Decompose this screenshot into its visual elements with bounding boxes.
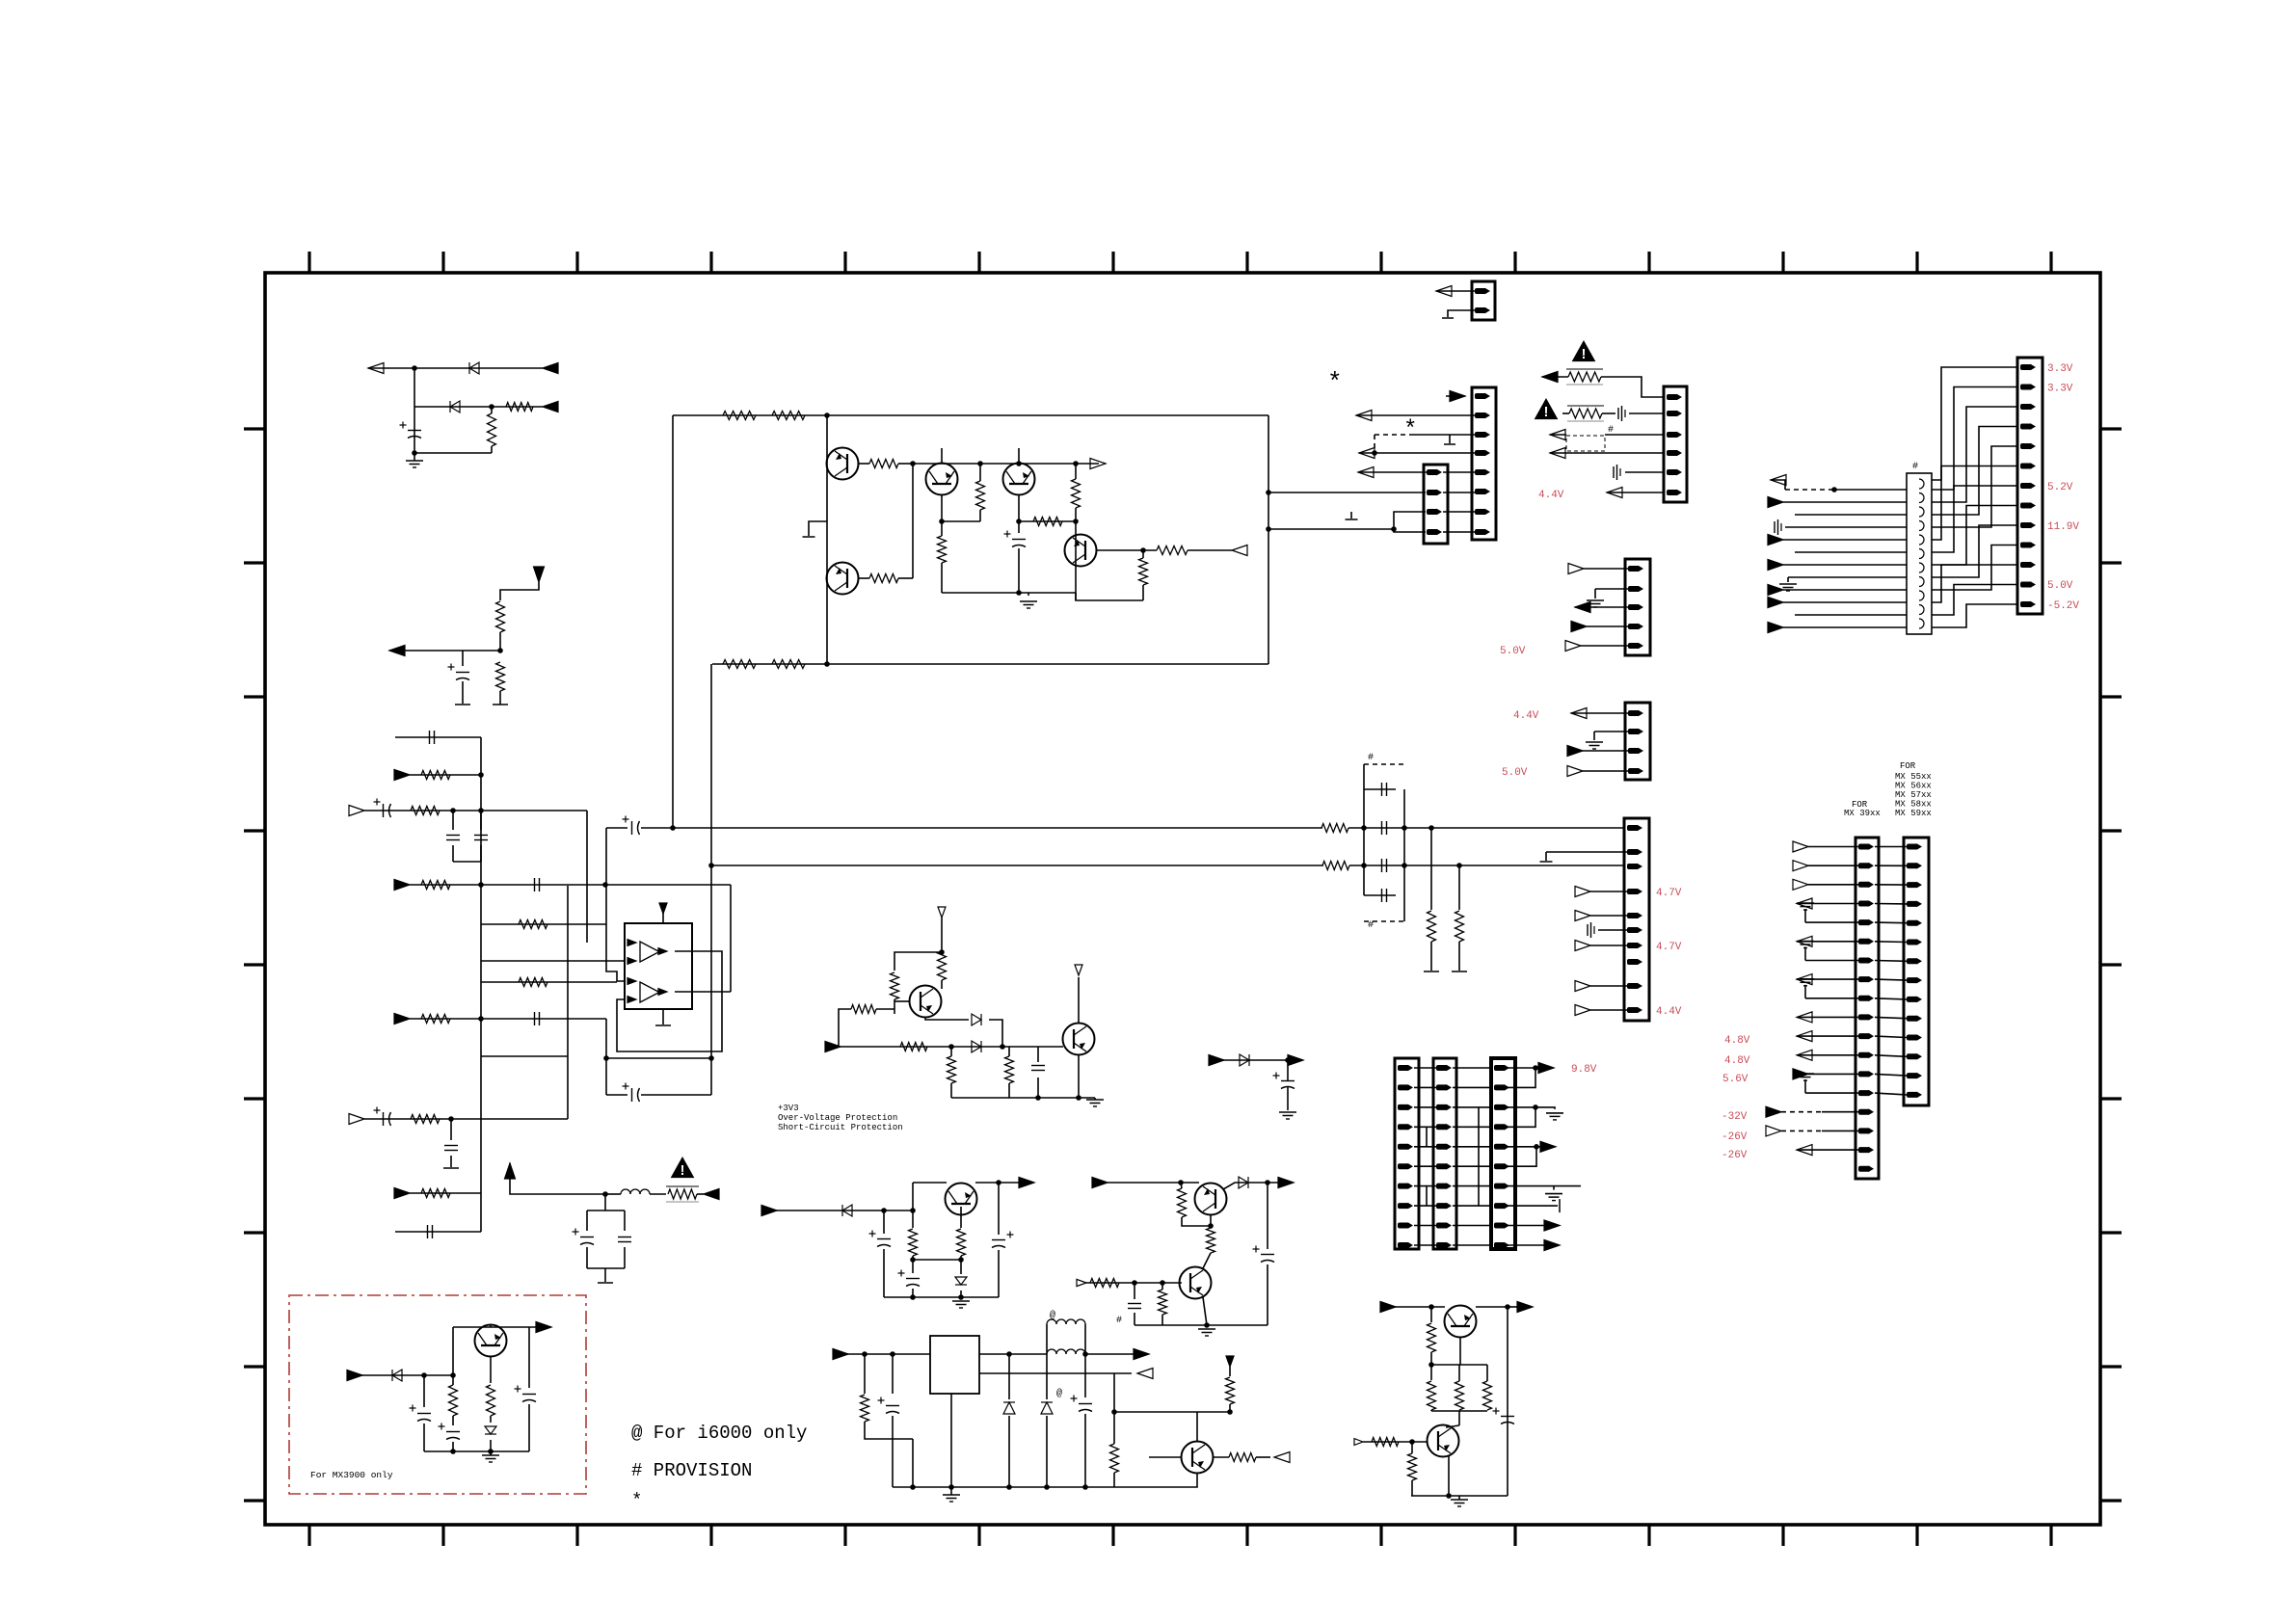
wire FL1 row3	[1783, 501, 1907, 503]
arrow FL1 row11 (filled right)	[1768, 598, 1783, 608]
wire FL1-J5 row8	[1932, 506, 2017, 566]
junction J2 pin4	[1372, 450, 1377, 456]
wire P1	[941, 918, 943, 950]
label For MX3900 only	[310, 1470, 393, 1480]
arrow REG in (filled right)	[833, 1349, 848, 1360]
wire R42 tail	[1229, 1404, 1231, 1412]
junction C4b	[602, 882, 608, 888]
arrow FL1 row3 (filled right)	[1768, 497, 1783, 508]
resistor R35	[909, 1229, 918, 1256]
resistor R51	[1408, 1453, 1417, 1480]
junction BR5	[1446, 1493, 1452, 1499]
resistor R24	[1139, 558, 1148, 585]
wire gnd stub Q1/Q2	[809, 521, 827, 536]
junction A2	[489, 404, 494, 410]
label @ L2	[1050, 1310, 1055, 1321]
junction bus1 x1485	[1428, 825, 1434, 831]
wire Q5 trunk	[1075, 521, 1077, 600]
border frame	[265, 273, 2100, 1525]
wire FL1-J5 row7	[1932, 486, 2017, 552]
junction T1	[602, 1191, 608, 1197]
warning triangle W3	[671, 1157, 695, 1179]
resistor R18	[869, 574, 898, 583]
connector J7 (10-pin)	[1624, 818, 1649, 1021]
wire T1	[510, 1163, 605, 1194]
wire Q12 top rail	[453, 1326, 540, 1328]
svg-text:#: #	[1368, 753, 1374, 763]
wire Q10 emitter	[1210, 1214, 1212, 1226]
wire J3-J2 links3	[1443, 511, 1475, 513]
wire REG v926	[892, 1354, 894, 1394]
junction BR2	[1505, 1304, 1510, 1310]
transistor Q10	[1195, 1184, 1227, 1215]
wire J10-J11 y1292.0	[1414, 1244, 1436, 1246]
wire out1b	[1535, 1067, 1542, 1069]
wire REG v926b	[892, 1416, 894, 1487]
capacitor C21 (polarized)	[869, 1231, 892, 1247]
arrow J8 row11 (open left)	[1797, 1031, 1812, 1042]
arrow out1 (filled right)	[1538, 1063, 1554, 1074]
arrow J3 pin1 (open left)	[1358, 467, 1374, 478]
wire J2 pin2	[1356, 414, 1475, 416]
junction rail Q4	[1016, 590, 1022, 596]
arrow J8 row12 (open left)	[1797, 1050, 1812, 1060]
svg-text:!: !	[1544, 405, 1549, 420]
arrow REG out2 (open left)	[1137, 1369, 1153, 1379]
power arrow T1 (filled up)	[505, 1163, 516, 1179]
ground CP	[952, 1301, 970, 1308]
wire capnet dash bot v	[1403, 895, 1405, 921]
resistor R39	[1159, 1290, 1167, 1315]
wire C5 lead	[452, 811, 454, 830]
junction MX2	[450, 1372, 456, 1378]
arrow B out (filled left)	[389, 646, 405, 656]
wire bus2	[711, 865, 1323, 866]
wire J8-J9 row11	[1875, 1036, 1907, 1037]
label FOR MX39xx	[1852, 800, 1868, 810]
junction R42	[1227, 1409, 1233, 1415]
warning triangle W1	[1572, 340, 1596, 362]
label Over-Voltage Protection	[778, 1113, 897, 1123]
op-amp U1 input pin 3	[627, 978, 636, 985]
wire out3 stub	[1535, 1107, 1555, 1109]
junction MX4	[488, 1449, 494, 1454]
wire C14 bot	[1018, 548, 1020, 593]
wire J6 pin2	[1594, 731, 1628, 732]
wire J12 out6	[1506, 1147, 1536, 1166]
ground out3	[1546, 1113, 1563, 1120]
resistor R21	[1033, 518, 1062, 526]
wire FL1 row11	[1783, 601, 1907, 603]
svg-text:5.0V: 5.0V	[2047, 580, 2073, 592]
wire CP in	[765, 1210, 913, 1211]
wire J8 row3	[1808, 884, 1858, 886]
power arrow P1 (open down)	[938, 907, 946, 918]
wire J10-J11 y1271.5	[1414, 1225, 1436, 1227]
resistor R19	[976, 481, 985, 510]
label -26V b	[1722, 1150, 1748, 1161]
wire CP top rail b	[975, 1182, 1024, 1184]
svg-text:4.8V: 4.8V	[1724, 1035, 1750, 1047]
wire J8-J9 row1	[1875, 846, 1907, 848]
arrow J13 pin3 (filled left)	[1575, 602, 1590, 613]
wire J8-J9 row2	[1875, 865, 1907, 866]
arrow CP out (filled right)	[1019, 1178, 1034, 1188]
wire block right edge	[1268, 415, 1269, 664]
junction tap2	[1266, 526, 1271, 532]
zener diode ZD2	[485, 1426, 496, 1434]
wire FL1-J5 row12	[1932, 585, 2017, 616]
diode D2	[450, 401, 460, 412]
wire J13 pin3	[1575, 606, 1628, 608]
svg-text:9.8V: 9.8V	[1571, 1064, 1597, 1076]
label @ For i6000 only	[631, 1423, 807, 1444]
wire Q6 base	[894, 1000, 910, 1002]
arrow row C8 (filled right)	[394, 1014, 410, 1024]
svg-text:MX 39xx: MX 39xx	[1844, 809, 1881, 818]
svg-text:Over-Voltage Protection: Over-Voltage Protection	[778, 1113, 897, 1123]
capacitor C5	[446, 836, 460, 840]
junction out5	[1534, 1144, 1539, 1150]
wire CP v1036	[998, 1183, 1000, 1235]
wire J12 out10	[1506, 1244, 1546, 1246]
connector J10 (10-pin)	[1395, 1058, 1419, 1249]
wire R51 lead	[1411, 1442, 1413, 1453]
diode D7 (up)	[1003, 1402, 1015, 1414]
junction BR1	[1428, 1304, 1434, 1310]
label # bottom	[1368, 920, 1374, 931]
wire J12 out5	[1506, 1146, 1536, 1148]
wire J12 out7	[1506, 1185, 1581, 1187]
wire CP v997	[960, 1256, 962, 1274]
wire BR outw	[1508, 1306, 1521, 1308]
wire J2 pin4	[1359, 452, 1475, 454]
wire R33	[950, 1047, 952, 1056]
junction REG2	[890, 1351, 895, 1357]
wire U1 vcc stub	[662, 913, 664, 923]
arrow QQ2 in (open right)	[1077, 1279, 1086, 1286]
junction R19 top	[977, 461, 983, 466]
wire REG v897b	[865, 1422, 913, 1439]
wire J8 row9 stub	[1804, 985, 1806, 998]
wire R27 lead	[1430, 828, 1432, 910]
wire gnd stub A	[414, 453, 415, 461]
wire R2 bottom	[491, 446, 493, 453]
wire REG v1126	[1084, 1354, 1086, 1397]
wire FL1-J5 row9	[1932, 525, 2017, 577]
wire B1	[500, 582, 539, 600]
junction bus1 capnet2	[1402, 825, 1407, 831]
label MX 59xx	[1895, 809, 1932, 818]
wire capnet dash bot	[1364, 920, 1404, 922]
wire FL1 row6	[1783, 539, 1907, 541]
svg-text:-26V: -26V	[1722, 1131, 1748, 1143]
wire BR v1485b	[1430, 1352, 1432, 1380]
wire CP v947	[912, 1183, 914, 1228]
wire y541a	[942, 520, 980, 522]
wire M3	[1287, 1087, 1289, 1110]
arrow row C10 (open right)	[349, 1114, 364, 1125]
wire FL1 row7	[1795, 551, 1907, 553]
label 5.2V J5	[2047, 482, 2073, 493]
wire MX v470c	[452, 1442, 454, 1451]
junction D top	[824, 412, 830, 418]
capacitor C17	[1382, 859, 1387, 872]
zener diode ZD1	[955, 1277, 967, 1285]
resistor R46	[1428, 1323, 1436, 1352]
arrow M1 (filled right)	[1209, 1055, 1224, 1066]
wire rail y481	[913, 463, 1099, 465]
junction P2a	[948, 1044, 954, 1050]
wire FL1 row10	[1783, 589, 1907, 591]
label # F3	[1608, 425, 1614, 436]
wire row C7	[481, 981, 617, 983]
label Short-Circuit Protection	[778, 1123, 903, 1132]
resistor R15	[723, 660, 756, 669]
junction A1	[412, 365, 417, 371]
wire T capv1b	[586, 1247, 588, 1268]
transistor Q3	[926, 464, 958, 495]
wire J8 row7	[1805, 960, 1858, 962]
ground out7	[1545, 1194, 1562, 1201]
capacitor C20 (polarized)	[1273, 1073, 1295, 1089]
arrow out5 (filled right)	[1540, 1141, 1556, 1152]
label +3V3	[778, 1104, 799, 1113]
label MX 58xx	[1895, 800, 1932, 810]
arrow F1 (filled left)	[1542, 372, 1558, 383]
capacitor C22 (polarized)	[898, 1270, 921, 1287]
ground QQ	[1198, 1329, 1215, 1336]
junction REG7	[1006, 1484, 1012, 1490]
wire J8-J9 row13	[1875, 1074, 1907, 1076]
wire T1b	[605, 1193, 621, 1195]
resistor R6	[411, 807, 440, 815]
wire OVP rail stub	[1094, 1098, 1096, 1100]
wire Q12 collector	[490, 1325, 492, 1327]
resistor R50	[1372, 1438, 1399, 1447]
resistor R47	[1428, 1381, 1436, 1410]
svg-text:MX 58xx: MX 58xx	[1895, 800, 1932, 810]
resistor R33	[948, 1056, 956, 1083]
capacitor C7	[535, 878, 540, 891]
wire capnet dash top v	[1363, 764, 1365, 789]
wire J8 row9	[1805, 998, 1858, 999]
wire Q13 emitter	[1459, 1337, 1461, 1365]
wire MX rail	[424, 1450, 529, 1452]
wire J2 pin1	[1446, 395, 1465, 397]
wire J8 row17	[1797, 1149, 1858, 1151]
resistor R31	[851, 1005, 876, 1014]
wire J3 pin1	[1358, 471, 1427, 473]
capacitor C3	[430, 731, 435, 744]
wire CP rail mid	[913, 1259, 961, 1261]
wire J8 row14	[1805, 1092, 1858, 1094]
wire J7 y925	[1590, 891, 1627, 892]
wire Q11 collector	[1196, 1412, 1198, 1442]
svg-text:MX 57xx: MX 57xx	[1895, 790, 1932, 800]
wire J7 pin2 stub	[1545, 852, 1547, 861]
wire BR v1485	[1430, 1307, 1432, 1322]
arrow MX in (filled right)	[347, 1370, 362, 1381]
diode D5	[1240, 1054, 1249, 1066]
wire CP v917	[883, 1211, 885, 1234]
junction P1	[939, 949, 945, 955]
op-amp U1 box	[625, 923, 692, 1009]
wire trunk1 vertical	[480, 737, 482, 1232]
wire out5b	[1536, 1146, 1544, 1148]
svg-text:MX 56xx: MX 56xx	[1895, 782, 1932, 791]
label 5.0V J5	[2047, 580, 2073, 592]
junction out3	[1533, 1104, 1538, 1110]
wire B6	[499, 691, 501, 705]
arrow M2 (filled right)	[1288, 1055, 1303, 1066]
power arrow B (filled down)	[534, 567, 545, 582]
wire J12 out9	[1506, 1225, 1546, 1227]
wire FL1-J5 row4	[1932, 427, 2017, 516]
wire R38b bot	[1203, 1253, 1211, 1268]
resistor R4	[496, 662, 505, 691]
resistor R32	[900, 1043, 927, 1051]
junction D bottom	[824, 661, 830, 667]
svg-text:5.6V: 5.6V	[1722, 1074, 1749, 1085]
junction R22 bot	[1073, 519, 1079, 524]
wire J8 row8	[1797, 978, 1858, 980]
junction BR4	[1409, 1439, 1415, 1445]
svg-text:5.0V: 5.0V	[1500, 646, 1526, 657]
voltage regulator U2	[930, 1336, 979, 1394]
wire L2 right	[1084, 1324, 1086, 1354]
capacitor C23 (polarized)	[992, 1232, 1014, 1248]
wire C6 lead	[480, 811, 482, 830]
wire J10-J11 y1189.8	[1414, 1146, 1436, 1148]
wire MX in	[351, 1374, 453, 1376]
wire J8 row15	[1781, 1111, 1822, 1113]
op-amp U1 input pin 1	[627, 940, 636, 946]
resistor R38b	[1207, 1228, 1215, 1253]
wire U1 gnd stub	[662, 1009, 664, 1024]
wire R17 to x947	[898, 463, 913, 465]
plate bar tap	[1346, 519, 1358, 520]
svg-text:*: *	[631, 1490, 642, 1511]
label # QQ	[1116, 1316, 1122, 1326]
wire BR c	[1476, 1306, 1508, 1308]
ground J8 row14	[1797, 1074, 1814, 1080]
wire J7 y1048	[1590, 1009, 1627, 1011]
svg-text:@ For i6000 only: @ For i6000 only	[631, 1423, 807, 1444]
label 5.0V J6	[1502, 767, 1528, 779]
ground BR	[1451, 1500, 1468, 1506]
wire Q11 emitter	[1114, 1473, 1197, 1487]
transistor Q13	[1445, 1306, 1477, 1338]
capacitor-to-ground FL1 row5	[1775, 519, 1781, 535]
label MX 55xx	[1895, 772, 1932, 782]
wire REG right v	[1113, 1373, 1115, 1444]
label 4.8V b	[1724, 1055, 1750, 1067]
plate bar T	[598, 1282, 613, 1284]
transistor Q5	[1065, 535, 1097, 567]
capacitor C27 (polarized)	[1071, 1396, 1093, 1412]
wire J13 pin1	[1584, 568, 1628, 570]
junction C10	[448, 1116, 454, 1122]
wire T cap rail bot	[587, 1267, 625, 1269]
junction FL1 row2	[1831, 487, 1837, 492]
capacitor-to-ground CG1	[1618, 406, 1625, 421]
transistor Q1	[827, 448, 859, 480]
junction bus2 capnet2	[1402, 863, 1407, 868]
arrow J8 row6 (open left)	[1797, 936, 1812, 946]
capacitor C14 (polarized)	[1004, 531, 1027, 547]
transistor Q9	[1180, 1267, 1212, 1299]
arrow BR in (filled right)	[1380, 1302, 1396, 1313]
wire FL1-J5 row5	[1932, 446, 2017, 527]
wire R24 bot	[1142, 585, 1144, 600]
wire R18 to x947	[898, 577, 913, 579]
connector J11 (10-pin)	[1433, 1058, 1456, 1249]
inductor array FL1 coils	[1919, 479, 1924, 628]
wire CP v947b	[912, 1256, 914, 1273]
warning triangle W2	[1535, 398, 1559, 420]
arrow J8 row16 (open right)	[1766, 1126, 1781, 1136]
diode D8 (up)	[1041, 1402, 1053, 1414]
arrow QQ in (filled right)	[1092, 1178, 1108, 1188]
wire J10-J11 y1169.3	[1414, 1126, 1436, 1128]
label 5.6V	[1722, 1074, 1749, 1085]
junction REG3	[1006, 1351, 1012, 1357]
arrow J8 row10 (open left)	[1797, 1012, 1812, 1023]
arrow BR out (filled right)	[1517, 1302, 1533, 1313]
wire row A1	[368, 367, 543, 369]
arrow J1 pin1 (open left)	[1436, 286, 1452, 297]
wire A3	[414, 452, 492, 454]
arrow J8 row13 (filled right)	[1793, 1069, 1808, 1079]
node IN arrow (open, left)	[368, 363, 384, 374]
ground J1	[1442, 317, 1454, 319]
resistor R29	[938, 951, 947, 980]
label 4.4V J6	[1513, 710, 1539, 722]
wire y541b	[1019, 520, 1076, 522]
capacitor C31 (polarized)	[439, 1423, 461, 1440]
wire J12 out1	[1506, 1067, 1535, 1069]
resistor R22	[1072, 479, 1081, 508]
junction CP2	[910, 1208, 916, 1213]
wire cap13 lead	[606, 1094, 627, 1096]
label 4.7V a	[1656, 888, 1682, 899]
wire row C10	[364, 1118, 568, 1120]
connector J8 (18-pin)	[1855, 838, 1879, 1179]
junction x629 y1096	[603, 1055, 609, 1061]
diode D6	[842, 1205, 852, 1216]
connector J5 (13-pin)	[2017, 358, 2042, 614]
junction C2	[478, 772, 484, 778]
capacitor C2 (polarized)	[448, 664, 470, 680]
capacitor C18	[1382, 889, 1387, 902]
wire row A2	[414, 406, 543, 408]
arrow QQ out (filled right)	[1278, 1178, 1294, 1188]
svg-text:4.4V: 4.4V	[1656, 1006, 1682, 1018]
label -26V a	[1722, 1131, 1748, 1143]
wire Q11 base	[1149, 1456, 1182, 1458]
label 4.8V a	[1724, 1035, 1750, 1047]
inductor L3	[621, 1189, 650, 1194]
wire J2 pin3 dashed	[1375, 434, 1409, 436]
connector J2 (8-pin)	[1472, 387, 1496, 540]
jumper J10-J11 b	[1426, 1186, 1428, 1207]
arrow J8 row1 (open right)	[1793, 841, 1808, 852]
wire R22 bot	[1075, 508, 1077, 521]
label FOR MX55xx block	[1900, 761, 1916, 771]
svg-text:+3V3: +3V3	[778, 1104, 799, 1113]
junction M1	[1285, 1057, 1291, 1063]
